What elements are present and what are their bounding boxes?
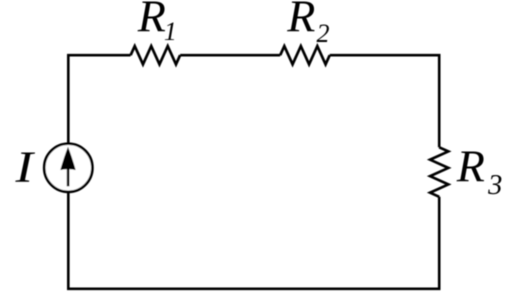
wire: left side up from current source, top-left corner, to R1 left lead bbox=[68, 55, 130, 143]
resistor R2 bbox=[280, 46, 330, 64]
wire: R3 bottom lead, bottom-right corner, bottom side, up to current source bottom bbox=[68, 193, 439, 289]
current source U1 circle bbox=[44, 144, 92, 192]
current source arrowhead bbox=[60, 147, 75, 170]
svg-text:I: I bbox=[14, 142, 35, 191]
wire: top side between R1 and R2 bbox=[180, 54, 280, 57]
svg-text:3: 3 bbox=[487, 170, 502, 201]
svg-text:1: 1 bbox=[164, 17, 177, 46]
resistor R1 bbox=[131, 46, 181, 64]
current source arrow shaft bbox=[67, 162, 70, 186]
svg-text:R: R bbox=[137, 0, 166, 42]
svg-text:2: 2 bbox=[317, 19, 330, 48]
svg-text:R: R bbox=[286, 0, 315, 42]
resistor R3 bbox=[430, 147, 448, 197]
wire: R2 right lead, top-right corner, down to R3 top lead bbox=[330, 55, 440, 147]
svg-text:R: R bbox=[456, 140, 485, 191]
